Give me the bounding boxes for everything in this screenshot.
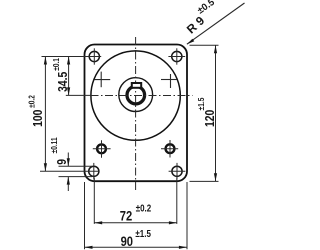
dimension 72 extension line left — [93, 178, 95, 224]
threaded hole bottom-right (bold) — [161, 140, 178, 158]
label R 9 — [184, 13, 207, 36]
svg-text:120: 120 — [204, 110, 217, 127]
dimension line 100 — [44, 57, 47, 172]
dimension 100 extension line bottom — [40, 170, 99, 172]
dimension 100 extension line top — [42, 56, 102, 58]
horizontal centerline — [91, 95, 193, 97]
bolt hole bottom-right — [169, 163, 186, 180]
svg-text:9: 9 — [56, 159, 69, 165]
svg-text:±0.11: ±0.11 — [50, 137, 60, 153]
svg-text:±0.2: ±0.2 — [27, 95, 37, 108]
shaft seal ring (thick annulus) — [127, 86, 145, 104]
dimension line 34.5 — [67, 57, 70, 96]
dimension 120 extension line bottom — [190, 180, 219, 182]
dimension 90 extension line right — [186, 182, 188, 249]
dimension line 72 — [94, 221, 177, 224]
threaded hole bottom-left (bold) — [93, 140, 111, 158]
dimension 90 extension line left — [84, 182, 86, 249]
port cross mark left — [94, 72, 110, 88]
dimension 34.5 extension line bottom — [66, 94, 91, 96]
dimension 72 extension line right — [176, 178, 178, 224]
label ±0.5 (of R 9) — [195, 0, 217, 16]
svg-text:±0.1: ±0.1 — [51, 58, 61, 71]
svg-text:±0.2: ±0.2 — [136, 203, 152, 214]
keyway key — [132, 83, 141, 88]
svg-text:100: 100 — [32, 110, 45, 127]
dimension line 9 (outside arrows) — [67, 153, 70, 192]
port cross mark right — [161, 74, 177, 88]
bolt hole bottom-left — [89, 163, 99, 180]
dimension 9 extension line top — [59, 165, 93, 167]
svg-text:34.5: 34.5 — [57, 71, 70, 92]
svg-text:±1.5: ±1.5 — [135, 228, 151, 239]
vertical centerline — [135, 37, 137, 192]
dimension line 120 — [214, 45, 217, 181]
dimension line 90 — [85, 246, 187, 249]
bolt hole top-left — [89, 48, 99, 64]
svg-text:90: 90 — [121, 234, 133, 249]
dimension 120 extension line top — [190, 44, 219, 46]
flange plate outline — [85, 45, 188, 182]
svg-text:72: 72 — [120, 208, 132, 223]
bolt hole top-right — [168, 48, 185, 64]
dimension 9 extension line bottom — [59, 176, 93, 178]
shaft boss circle — [119, 78, 153, 112]
radius leader line R9 — [187, 3, 245, 44]
pilot circle (pump body) — [91, 51, 180, 140]
svg-text:±1.5: ±1.5 — [197, 98, 207, 111]
